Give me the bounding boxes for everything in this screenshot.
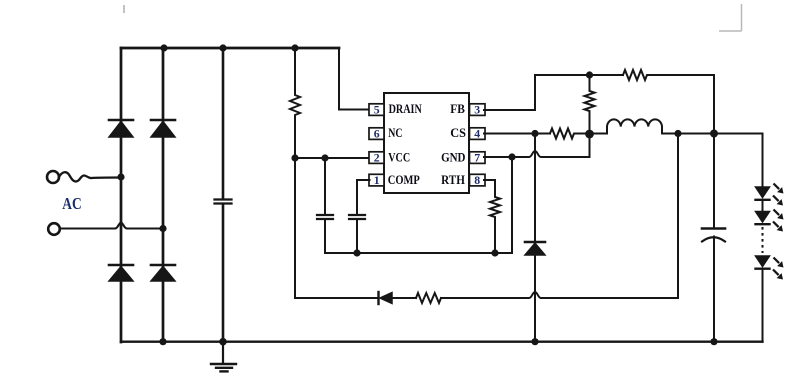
pin 1 box [369,174,384,186]
svg-text:2: 2 [374,150,380,164]
wire AC2 with hop over branch1 [60,223,163,229]
svg-text:3: 3 [474,102,480,116]
AC terminal top [47,171,59,183]
wire VCC branch down [294,158,296,298]
pin 2 box [369,152,384,164]
svg-text:VCC: VCC [388,151,410,165]
pin 7 box [470,152,486,164]
wire VCC line [295,157,370,159]
svg-text:CS: CS [450,126,466,140]
wire comp bottom [325,157,512,253]
node FB top junction [586,71,593,78]
resistor R3 [484,180,500,253]
diode D4 [151,265,175,281]
svg-text:7: 7 [474,150,480,164]
diode D6 [295,292,416,304]
pin 4 box [470,128,486,140]
capacitor C3 [349,180,370,253]
wire FB path [484,75,623,110]
capacitor C4 [702,229,725,342]
wire bridge branch 2 vertical [162,48,165,342]
scan artifact tick [123,5,125,13]
svg-text:NC: NC [388,126,402,140]
LED light arrows [772,183,783,280]
svg-text:GND: GND [441,151,465,165]
svg-text:1: 1 [374,173,380,187]
LED D9 [756,256,770,342]
wire freewheel branch [534,134,536,242]
pin 5 box [369,104,384,116]
svg-text:DRAIN: DRAIN [389,102,422,116]
inductor L1 [590,119,763,133]
wire bridge branch 1 vertical [120,48,123,342]
node AC2 junction [159,225,166,232]
svg-text:6: 6 [374,126,380,140]
wire top bus [121,47,339,50]
diode D1 [109,120,133,137]
resistor R4 [623,70,714,80]
node comp bottom junctions [353,153,515,256]
resistor R7 [416,293,441,303]
op-amp U1 IC body [384,93,469,193]
wire bottom bus [121,341,763,343]
pin 8 box [470,174,486,186]
wire LED string top [762,134,764,188]
node bottom bus junctions [159,338,717,346]
node CS big junction [585,130,594,139]
wire fuse squiggle [59,172,121,181]
node top bus junctions [160,44,298,51]
node inductor out junctions [674,130,718,138]
svg-text:AC: AC [62,194,81,213]
diode D2 [151,120,175,137]
wire output branch [713,75,715,227]
diode D3 [109,265,133,281]
resistor R1 [290,48,300,158]
pin 6 box [369,128,384,140]
svg-text:COMP: COMP [388,173,420,187]
wire feedback loop vertical [541,134,678,299]
LED D8 [756,212,770,225]
svg-text:5: 5 [374,102,380,116]
svg-text:8: 8 [474,173,480,187]
svg-text:4: 4 [474,126,480,140]
node AC1 junction [117,173,124,180]
wire GND line with hop [484,134,590,157]
node CS junction [531,130,538,137]
wire DRAIN path [339,48,370,110]
LED D7 [756,187,770,212]
capacitor C2 [317,158,333,253]
wire filter cap branch [222,48,225,342]
scan artifact corner [719,4,742,31]
capacitor C1 [215,200,232,204]
diode D5 [525,242,545,342]
ground [211,342,236,372]
node VCC junctions [291,154,328,161]
wire dotted LED continuation [762,227,764,253]
resistor R6 [550,129,590,139]
wire CS line [484,133,550,135]
svg-text:FB: FB [450,102,465,116]
wire y298 with hop [441,292,541,298]
svg-text:RTH: RTH [441,173,465,187]
pin 3 box [470,104,486,116]
resistor R5 [585,75,595,134]
AC terminal bottom [48,223,60,235]
